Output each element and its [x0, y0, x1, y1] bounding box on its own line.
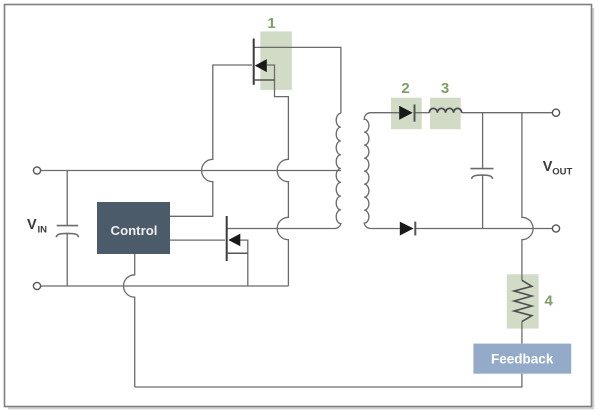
svg-text:OUT: OUT	[552, 166, 572, 177]
svg-text:V: V	[27, 217, 37, 233]
svg-text:Feedback: Feedback	[491, 352, 554, 367]
svg-text:2: 2	[401, 80, 409, 97]
svg-text:Control: Control	[111, 223, 158, 238]
svg-text:4: 4	[545, 293, 554, 310]
svg-text:V: V	[543, 159, 553, 175]
svg-text:IN: IN	[38, 225, 48, 236]
svg-text:3: 3	[441, 80, 449, 97]
svg-text:1: 1	[267, 15, 275, 32]
